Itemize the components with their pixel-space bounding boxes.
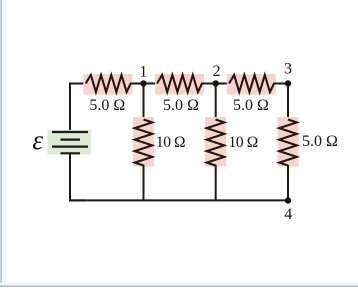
wire: node 1 down to R4 [143,84,145,121]
wire: bottom rail [69,199,288,201]
wire: R5 down to bottom wire [215,165,217,201]
wire: R3 to node 3 [273,83,288,85]
svg-text:5.0 Ω: 5.0 Ω [302,133,338,150]
resistor R6 (5.0 ohm, vertical right branch) [278,117,299,167]
wire: node 3 down to R6 [287,84,289,121]
svg-text:4: 4 [284,206,292,223]
svg-text:5.0 Ω: 5.0 Ω [89,97,125,114]
svg-text:10 Ω: 10 Ω [156,134,185,151]
wire: top-left segment from battery top corner to R1 [70,84,87,133]
svg-text:ε: ε [32,125,43,155]
node 4 [285,197,291,203]
svg-text:3: 3 [284,61,292,78]
node 1 [140,80,146,86]
node 2 [213,80,219,86]
svg-text:2: 2 [213,63,221,80]
resistor R2 (5.0 ohm, top middle) [155,74,204,95]
wire: R1 to node 1 [130,83,144,85]
wire: R6 down to node 4 [287,165,289,201]
resistor R3 (5.0 ohm, top right) [227,74,276,95]
wire: R4 down to bottom wire [143,165,145,201]
svg-text:5.0 Ω: 5.0 Ω [233,97,269,114]
wire: node 1 to R2 [144,83,158,85]
svg-text:5.0 Ω: 5.0 Ω [163,97,199,114]
resistor R4 (10 ohm, vertical at node 1) [133,117,154,167]
svg-text:1: 1 [139,64,147,81]
battery EMF (left branch) [48,130,92,155]
resistor R1 (5.0 ohm, top left) [83,74,132,95]
node 3 [285,80,291,86]
resistor R5 (10 ohm, vertical at node 2) [205,117,226,167]
wire: node 2 to R3 [216,83,230,85]
wire: battery bottom to bottom-left corner [70,153,86,200]
svg-text:10 Ω: 10 Ω [229,134,258,151]
wire: node 2 down to R5 [215,84,217,121]
wire: R2 to node 2 [201,83,216,85]
